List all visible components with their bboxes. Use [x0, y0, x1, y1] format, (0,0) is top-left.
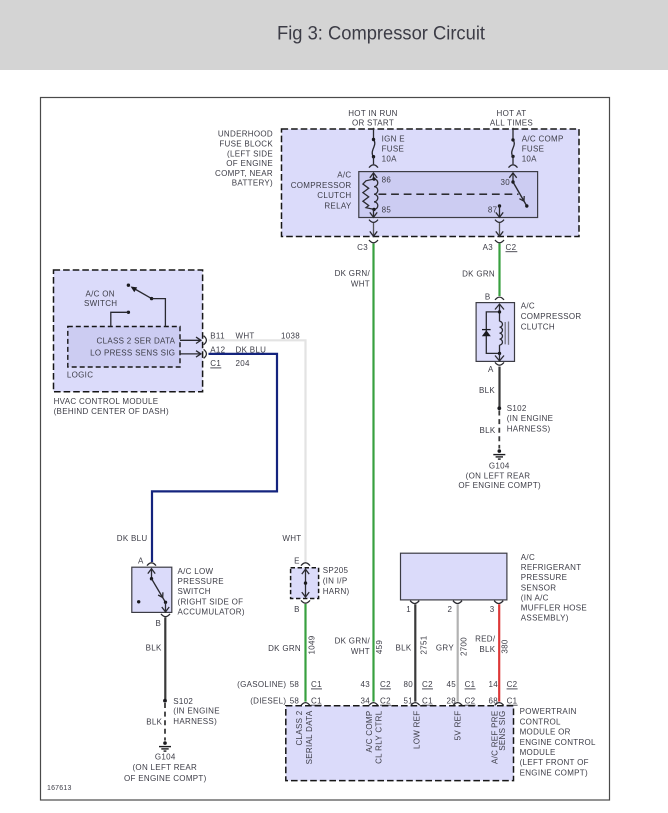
wire WHT 1038 from HVAC to SP205 — [209, 340, 306, 562]
connector arc above relay pin 86 — [369, 165, 378, 168]
LPS entry arrow — [148, 569, 155, 579]
svg-text:SWITCH: SWITCH — [178, 587, 211, 596]
clutch exit arrow — [495, 353, 504, 361]
svg-text:ALL TIMES: ALL TIMES — [490, 118, 533, 127]
fuse A/C COMP 10A — [512, 140, 515, 157]
ground G104 left — [163, 741, 167, 745]
svg-text:E: E — [294, 556, 300, 565]
svg-text:(LEFT FRONT OF: (LEFT FRONT OF — [520, 758, 589, 767]
svg-text:COMPT, NEAR: COMPT, NEAR — [215, 169, 273, 178]
svg-text:UNDERHOOD: UNDERHOOD — [218, 130, 273, 139]
svg-text:MUFFLER HOSE: MUFFLER HOSE — [521, 604, 587, 613]
relay coil terminal dots — [372, 177, 375, 180]
diesel row connector underlines — [311, 704, 518, 706]
svg-text:BLK: BLK — [146, 643, 162, 652]
svg-text:(ON LEFT REAR: (ON LEFT REAR — [466, 472, 531, 481]
svg-text:(IN ENGINE: (IN ENGINE — [173, 706, 220, 715]
SP205 internal bus — [302, 569, 309, 597]
svg-text:30: 30 — [501, 178, 511, 187]
svg-text:34: 34 — [361, 696, 371, 705]
wire BLK from LPS to S102 left — [164, 618, 166, 700]
svg-text:85: 85 — [382, 205, 392, 214]
svg-text:CLUTCH: CLUTCH — [521, 322, 555, 331]
svg-text:B: B — [294, 605, 300, 614]
svg-text:WHT: WHT — [351, 279, 370, 288]
svg-text:CLASS 2: CLASS 2 — [295, 710, 304, 745]
splice S102 left — [163, 699, 167, 703]
wire DK GRN/WHT from C3 to PCM — [372, 244, 374, 702]
node HOT AT ALL TIMES — [490, 109, 533, 127]
wire label DK GRN/WHT lower — [335, 637, 371, 656]
svg-text:C1: C1 — [311, 680, 322, 689]
underline C1 — [210, 367, 221, 369]
svg-text:A/C LOW: A/C LOW — [178, 567, 214, 576]
wire BLK 2751 sensor pin1 to PCM — [414, 604, 416, 701]
svg-text:OF ENGINE COMPT): OF ENGINE COMPT) — [458, 481, 541, 490]
node HOT IN RUN OR START — [348, 109, 398, 127]
svg-text:58: 58 — [290, 680, 300, 689]
svg-text:BLK: BLK — [146, 718, 162, 727]
fuse IGN E label — [382, 134, 405, 163]
wire GRY 2700 sensor pin2 to PCM — [457, 604, 459, 701]
svg-text:DK BLU: DK BLU — [117, 534, 148, 543]
svg-text:204: 204 — [236, 359, 250, 368]
svg-text:BLK: BLK — [479, 386, 495, 395]
svg-text:BATTERY): BATTERY) — [232, 179, 273, 188]
svg-text:DK GRN/: DK GRN/ — [335, 269, 371, 278]
LPS exit arrow — [162, 602, 169, 612]
connector arc SP205 pin B — [301, 600, 310, 603]
wire feed into fuse block left — [373, 128, 375, 140]
svg-text:REFRIGERANT: REFRIGERANT — [521, 563, 582, 572]
relay switch blade arrowhead — [519, 196, 524, 201]
svg-text:B: B — [485, 292, 491, 301]
wire DK GRN from A3/C2 to compressor clutch — [498, 244, 500, 296]
connector arc sensor pin 3 — [494, 601, 503, 604]
relay pin 87 contact and exit arrow — [498, 204, 501, 207]
connector arcs at PCM top — [301, 703, 504, 706]
LPS switch blade — [150, 577, 153, 580]
relay box A/C compressor clutch relay — [359, 172, 538, 218]
svg-text:(BEHIND CENTER OF DASH): (BEHIND CENTER OF DASH) — [54, 407, 169, 416]
svg-text:(IN I/P: (IN I/P — [323, 577, 348, 586]
svg-text:DK GRN/: DK GRN/ — [335, 637, 371, 646]
svg-text:G104: G104 — [489, 462, 510, 471]
svg-text:A/C: A/C — [337, 171, 351, 180]
svg-text:C1: C1 — [311, 696, 322, 705]
svg-text:SERIAL DATA: SERIAL DATA — [305, 710, 314, 764]
svg-text:MODULE OR: MODULE OR — [520, 728, 571, 737]
svg-text:1049: 1049 — [307, 635, 316, 654]
svg-text:(IN ENGINE: (IN ENGINE — [507, 414, 554, 423]
svg-text:FUSE: FUSE — [522, 145, 545, 154]
svg-text:45: 45 — [447, 680, 457, 689]
svg-text:SWITCH: SWITCH — [84, 299, 117, 308]
PCM caption — [520, 707, 596, 777]
connector arc at HVAC edge pin A12 — [204, 349, 207, 358]
relay caption — [291, 171, 352, 211]
arrow lo press sens sig to HVAC edge — [180, 351, 201, 357]
svg-text:10A: 10A — [382, 154, 397, 163]
svg-text:CLASS 2 SER DATA: CLASS 2 SER DATA — [97, 336, 176, 345]
svg-text:PRESSURE: PRESSURE — [521, 573, 567, 582]
svg-text:58: 58 — [290, 696, 300, 705]
clutch caption — [521, 301, 582, 331]
svg-text:OF ENGINE COMPT): OF ENGINE COMPT) — [124, 774, 207, 783]
splice S102 — [497, 406, 501, 410]
svg-text:POWERTRAIN: POWERTRAIN — [520, 707, 577, 716]
diode (flyback) — [482, 330, 491, 336]
svg-text:A/C COMP: A/C COMP — [365, 711, 374, 753]
wire label DK GRN/WHT upper — [335, 269, 371, 288]
svg-text:DK GRN: DK GRN — [268, 644, 301, 653]
A/C ON SWITCH label — [84, 290, 117, 308]
svg-text:80: 80 — [404, 680, 414, 689]
svg-text:C2: C2 — [465, 696, 476, 705]
ground G104 right — [498, 449, 502, 453]
svg-text:HARNESS): HARNESS) — [173, 717, 217, 726]
connector arc clutch pin A — [495, 362, 504, 365]
svg-text:(DIESEL): (DIESEL) — [250, 696, 286, 705]
svg-text:CLUTCH: CLUTCH — [317, 191, 351, 200]
svg-text:S102: S102 — [507, 404, 527, 413]
svg-text:FUSE BLOCK: FUSE BLOCK — [219, 140, 273, 149]
logic box (dashed) — [68, 327, 180, 368]
svg-text:2751: 2751 — [419, 635, 428, 654]
svg-text:S102: S102 — [173, 697, 193, 706]
svg-text:C2: C2 — [380, 696, 391, 705]
sensor caption — [521, 553, 587, 623]
clutch coil bumps — [500, 321, 503, 345]
svg-text:380: 380 — [500, 639, 509, 653]
svg-text:(LEFT SIDE: (LEFT SIDE — [227, 149, 273, 158]
wire BLK from clutch to S102 — [498, 367, 500, 407]
clutch entry arrow — [495, 304, 504, 312]
svg-text:ASSEMBLY): ASSEMBLY) — [521, 614, 569, 623]
wire BLK dashed to ground — [498, 411, 500, 449]
PCM pin row gasoline — [237, 680, 518, 689]
svg-text:(RIGHT SIDE OF: (RIGHT SIDE OF — [178, 597, 244, 606]
fuse IGN E 10A — [372, 140, 375, 157]
svg-text:Fig 3: Compressor Circuit: Fig 3: Compressor Circuit — [277, 23, 486, 45]
svg-text:C1: C1 — [422, 696, 433, 705]
svg-text:HOT AT: HOT AT — [497, 109, 527, 118]
svg-text:10A: 10A — [522, 154, 537, 163]
svg-text:FUSE: FUSE — [382, 145, 405, 154]
A/C on switch blade with arrowhead — [134, 289, 152, 299]
A/C low pressure switch box — [132, 567, 172, 612]
svg-text:C2: C2 — [506, 243, 517, 252]
A/C on switch lower contact dot and wire to logic box — [127, 311, 130, 314]
svg-text:(ON LEFT REAR: (ON LEFT REAR — [132, 763, 197, 772]
A/C on switch upper contact dot — [127, 284, 130, 287]
svg-text:(IN A/C: (IN A/C — [521, 593, 549, 602]
svg-text:167613: 167613 — [47, 785, 72, 792]
svg-text:ACCUMULATOR): ACCUMULATOR) — [178, 607, 245, 616]
underhood fuse block (dashed box) — [282, 129, 580, 237]
clutch junction dots — [498, 310, 501, 313]
wire BLK dashed to ground left — [164, 703, 166, 741]
connector A3 C2 arc below fuse block — [495, 240, 504, 243]
svg-text:LOGIC: LOGIC — [67, 370, 93, 379]
svg-text:SP205: SP205 — [323, 566, 349, 575]
svg-text:1: 1 — [406, 605, 411, 614]
HVAC control module (dashed box) — [54, 270, 203, 392]
wire label RED/BLK — [475, 635, 496, 654]
svg-text:CONTROL: CONTROL — [520, 717, 561, 726]
connector arc sensor pin 2 — [453, 601, 462, 604]
svg-text:IGN E: IGN E — [382, 134, 405, 143]
svg-text:A3: A3 — [483, 243, 494, 252]
svg-text:OF ENGINE: OF ENGINE — [226, 159, 273, 168]
relay mechanical link (dashed) — [379, 193, 519, 195]
connector arc above relay pin 30 — [509, 165, 518, 168]
connector arc clutch pin B — [495, 297, 504, 300]
svg-text:RELAY: RELAY — [324, 201, 352, 210]
svg-text:SENSOR: SENSOR — [521, 583, 557, 592]
svg-text:DK GRN: DK GRN — [462, 269, 495, 278]
wire from switch blade to logic box — [152, 299, 166, 327]
svg-text:86: 86 — [382, 176, 392, 185]
svg-text:A: A — [488, 365, 494, 374]
wire DK GRN 1049 from SP205 to PCM — [304, 604, 306, 702]
connector arc sensor pin 1 — [410, 601, 419, 604]
svg-text:HOT IN RUN: HOT IN RUN — [348, 109, 398, 118]
wire feed into fuse block right — [512, 128, 514, 140]
connector C3 arc below fuse block — [369, 240, 378, 243]
svg-text:A/C: A/C — [521, 553, 535, 562]
svg-text:LO PRESS SENS SIG: LO PRESS SENS SIG — [90, 348, 175, 357]
svg-text:C3: C3 — [357, 243, 368, 252]
A/C compressor clutch box — [476, 303, 514, 362]
svg-text:LOW REF: LOW REF — [413, 711, 422, 750]
connector arc LPS pin A — [147, 563, 156, 566]
arrow class 2 ser data to HVAC edge — [180, 337, 201, 343]
svg-text:C2: C2 — [507, 680, 518, 689]
svg-text:ENGINE CONTROL: ENGINE CONTROL — [520, 738, 596, 747]
svg-text:(GASOLINE): (GASOLINE) — [237, 680, 286, 689]
svg-text:SENS SIG: SENS SIG — [498, 711, 507, 751]
svg-text:HARNESS): HARNESS) — [507, 425, 551, 434]
connector arc SP205 pin E — [301, 563, 310, 566]
svg-text:2: 2 — [448, 605, 453, 614]
wire DK BLU 204 from HVAC to low pressure switch — [152, 354, 277, 562]
svg-text:459: 459 — [375, 640, 384, 654]
connector arc at HVAC edge pin B11 — [204, 336, 207, 345]
svg-text:BLK: BLK — [479, 645, 495, 654]
svg-text:C2: C2 — [422, 680, 433, 689]
svg-text:COMPRESSOR: COMPRESSOR — [291, 181, 352, 190]
pigtail wire relay 85 to fuse block edge — [370, 223, 377, 236]
svg-text:GRY: GRY — [436, 643, 454, 652]
pigtail wire relay 87 to fuse block edge — [496, 223, 503, 236]
svg-text:C1: C1 — [465, 680, 476, 689]
connector arc below relay pin 87 — [495, 220, 504, 223]
svg-text:3: 3 — [490, 605, 495, 614]
PCM pin row diesel — [250, 696, 517, 705]
svg-text:WHT: WHT — [282, 534, 301, 543]
HVAC pin labels B11 WHT 1038 — [210, 332, 300, 368]
svg-text:MODULE: MODULE — [520, 748, 556, 757]
connector arc LPS pin B — [161, 614, 170, 617]
relay pin 86 arrow — [370, 173, 377, 179]
svg-text:RED/: RED/ — [475, 635, 496, 644]
svg-text:ENGINE COMPT): ENGINE COMPT) — [520, 768, 588, 777]
relay coil zigzag — [363, 179, 374, 209]
svg-text:HARN): HARN) — [323, 587, 350, 596]
LPS caption — [178, 567, 245, 616]
svg-text:A: A — [138, 556, 144, 565]
splice pack SP205 (dashed box) — [291, 568, 319, 599]
HVAC caption — [54, 397, 169, 416]
svg-text:G104: G104 — [155, 752, 176, 761]
relay coil bumps — [374, 179, 378, 209]
underhood fuse block caption — [215, 130, 273, 188]
fuse A/C COMP label — [522, 134, 564, 163]
header band — [0, 0, 668, 70]
svg-text:A/C COMP: A/C COMP — [522, 134, 564, 143]
relay pin 85 exit arrow — [370, 209, 377, 217]
A/C refrigerant pressure sensor box — [401, 553, 507, 600]
wire RED/BLK 380 sensor pin3 to PCM — [498, 604, 500, 701]
svg-text:CL RLY CTRL: CL RLY CTRL — [375, 710, 384, 764]
svg-text:B: B — [156, 619, 162, 628]
gasoline row connector underlines — [311, 688, 518, 690]
clutch coil core lines — [504, 322, 506, 344]
PCM box (dashed) — [286, 706, 514, 781]
connector arc below relay pin 85 — [369, 220, 378, 223]
svg-text:PRESSURE: PRESSURE — [178, 577, 224, 586]
svg-text:WHT: WHT — [351, 647, 370, 656]
main frame — [41, 98, 610, 801]
svg-text:BLK: BLK — [479, 426, 495, 435]
svg-text:COMPRESSOR: COMPRESSOR — [521, 312, 582, 321]
svg-text:OR START: OR START — [352, 118, 394, 127]
LPS spare contact dot — [137, 600, 140, 603]
svg-text:BLK: BLK — [395, 643, 411, 652]
svg-text:C1: C1 — [507, 696, 518, 705]
relay pin 30 arrow — [509, 173, 516, 182]
relay switch blade — [513, 182, 527, 206]
sensor pin labels 1 2 3 — [406, 605, 495, 614]
svg-text:2700: 2700 — [460, 637, 469, 656]
svg-text:43: 43 — [361, 680, 371, 689]
clutch diode branch — [486, 312, 499, 354]
svg-text:5V REF: 5V REF — [454, 711, 463, 741]
svg-text:14: 14 — [489, 680, 499, 689]
svg-text:C1: C1 — [210, 359, 221, 368]
svg-text:A/C: A/C — [521, 301, 535, 310]
svg-text:A/C ON: A/C ON — [86, 290, 115, 299]
SP205 caption — [323, 566, 350, 596]
svg-text:C2: C2 — [380, 680, 391, 689]
svg-text:HVAC CONTROL MODULE: HVAC CONTROL MODULE — [54, 397, 159, 406]
